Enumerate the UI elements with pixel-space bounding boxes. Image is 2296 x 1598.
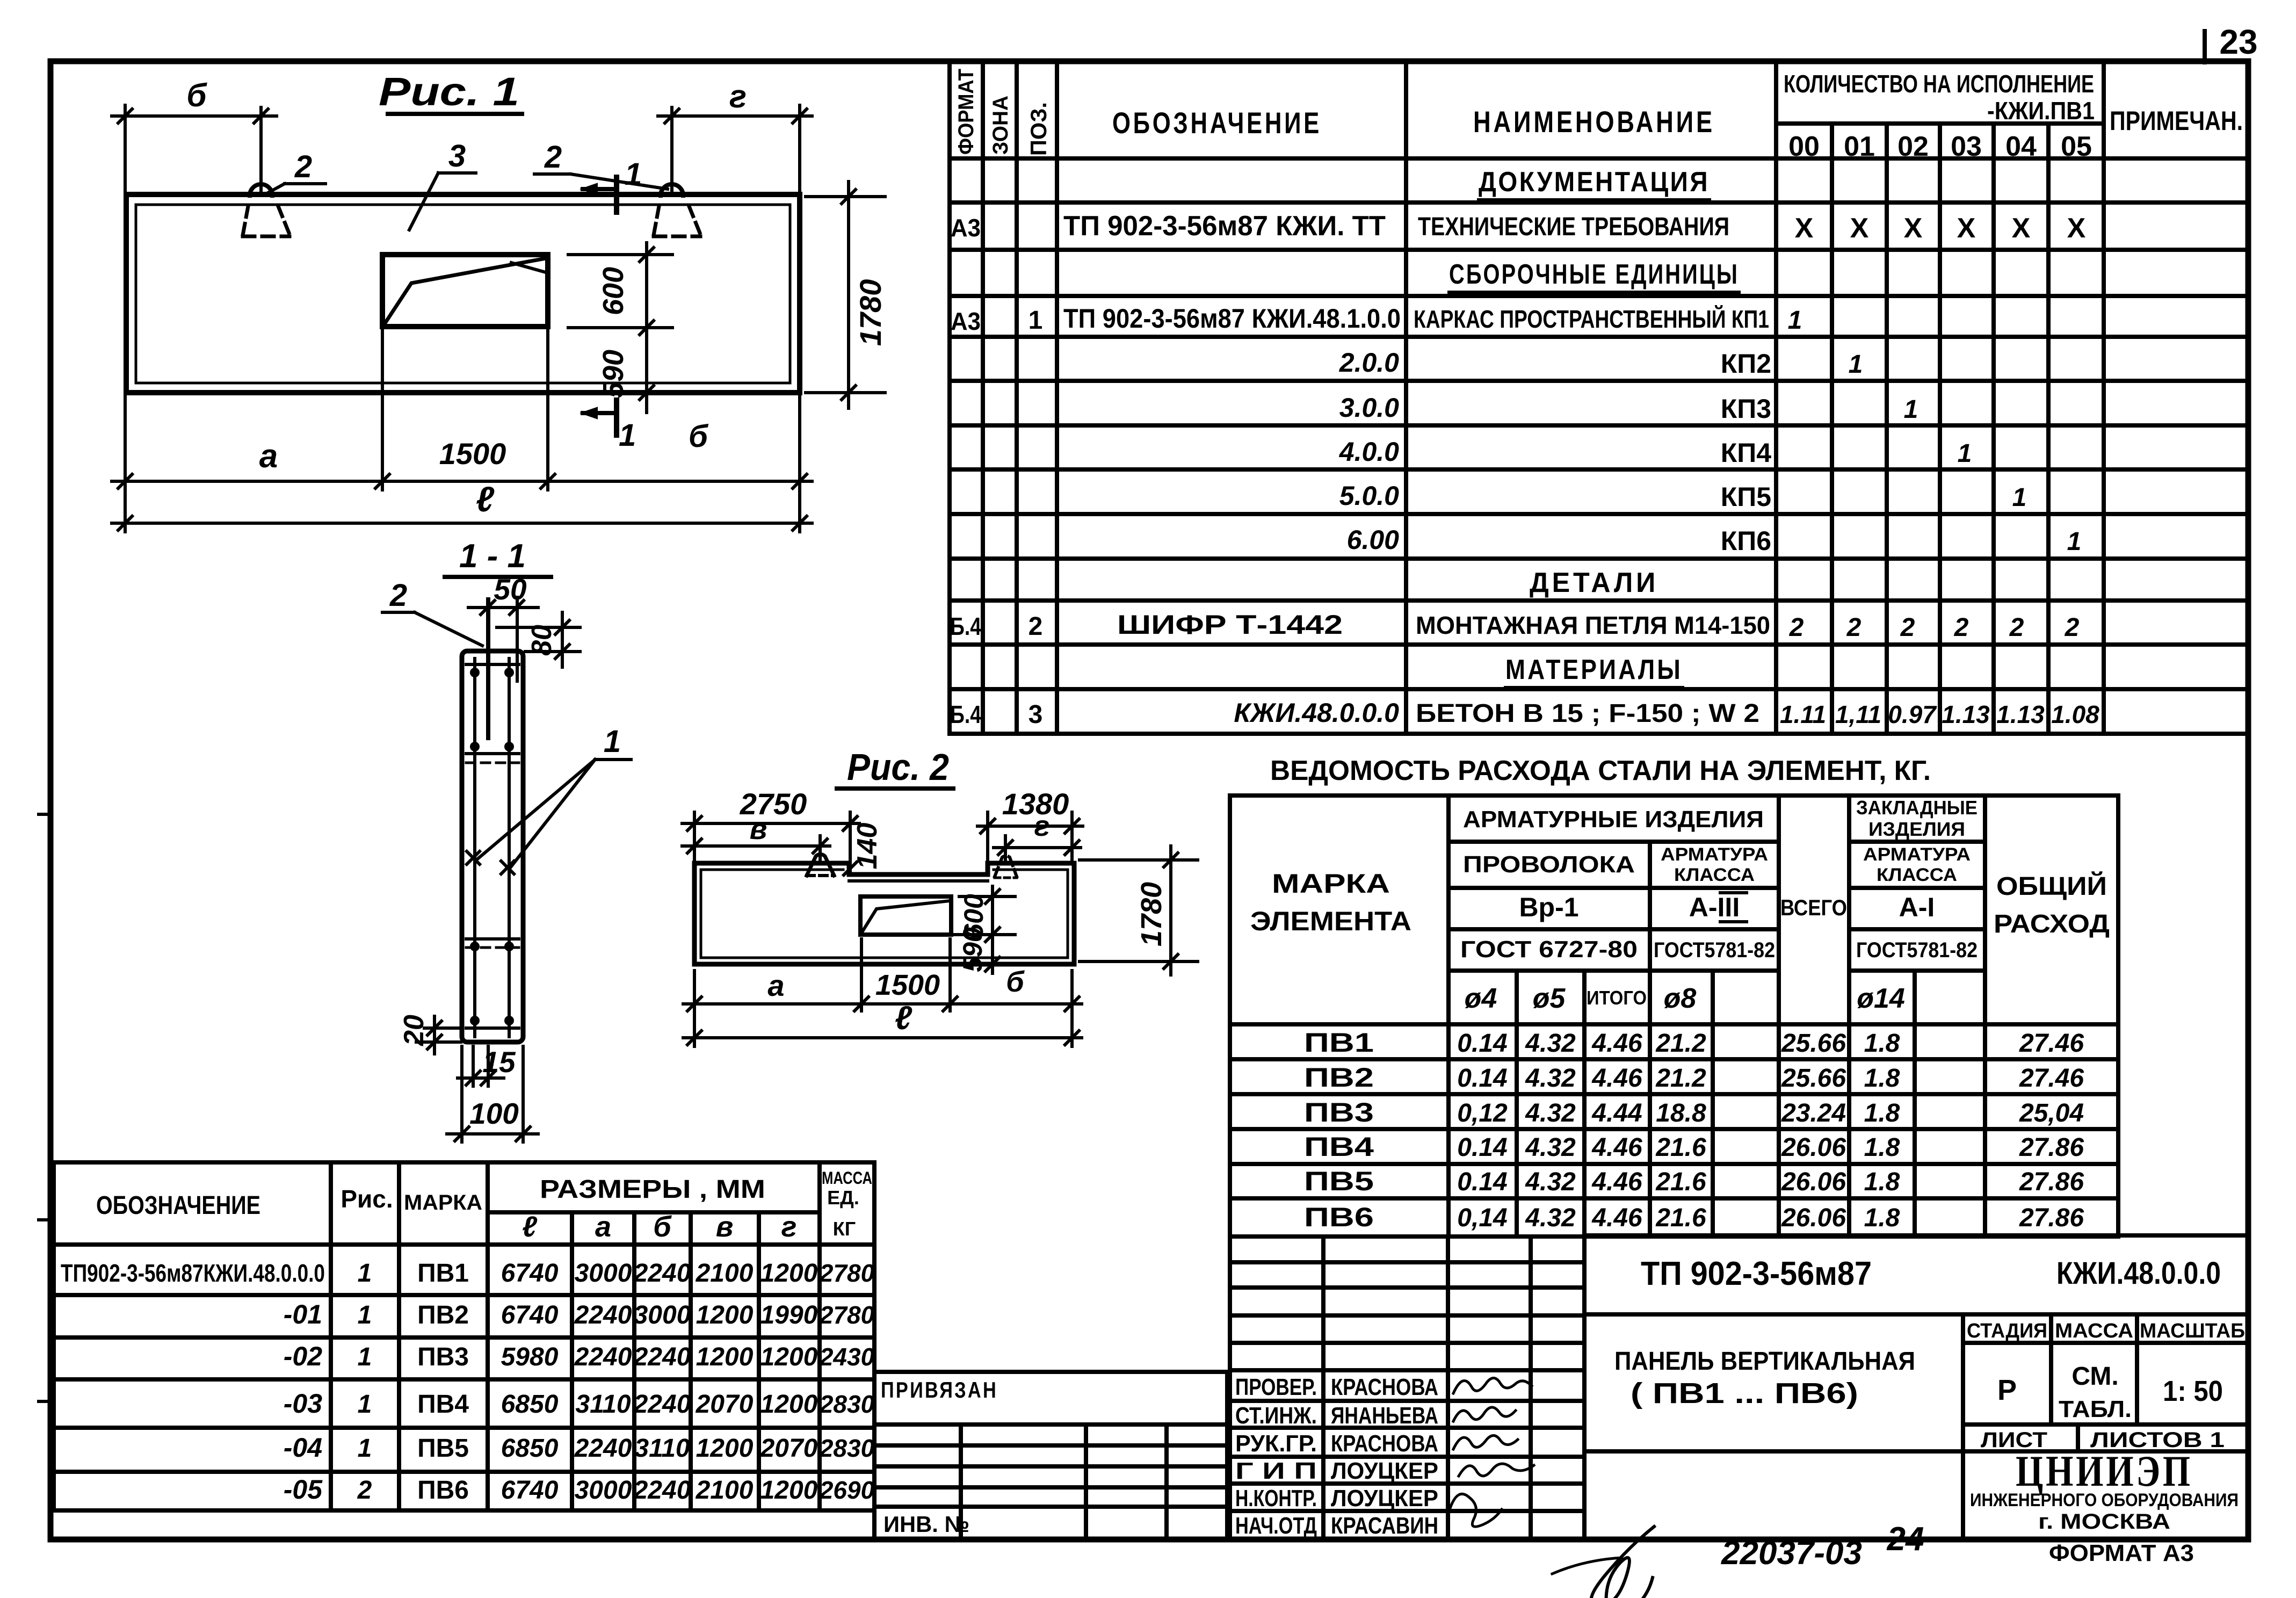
page number 23	[2203, 31, 2207, 62]
svg-text:2830: 2830	[819, 1390, 875, 1418]
svg-text:6850: 6850	[501, 1390, 559, 1419]
svg-text:1,11: 1,11	[1835, 700, 1881, 728]
fig1 extension lines	[124, 105, 127, 532]
svg-text:1: 1	[619, 418, 636, 453]
svg-text:ТП 902-3-56м87 КЖИ.48.1.0.0: ТП 902-3-56м87 КЖИ.48.1.0.0	[1063, 303, 1401, 334]
svg-text:-КЖИ.ПВ1: -КЖИ.ПВ1	[1987, 97, 2095, 125]
svg-text:0,14: 0,14	[1457, 1204, 1507, 1232]
svg-text:ПВ5: ПВ5	[1304, 1166, 1374, 1196]
svg-text:ПРИМЕЧАН.: ПРИМЕЧАН.	[2110, 106, 2243, 136]
svg-text:1: 1	[1788, 306, 1802, 335]
svg-text:ЗОНА: ЗОНА	[989, 96, 1012, 155]
svg-text:27.86: 27.86	[2019, 1204, 2084, 1232]
svg-text:1: 1	[2067, 527, 2082, 556]
svg-text:ПВ1: ПВ1	[1304, 1028, 1374, 1058]
svg-text:1: 1	[604, 724, 621, 759]
svg-text:80: 80	[526, 625, 557, 656]
svg-text:04: 04	[2005, 131, 2037, 162]
svg-text:1: 1	[1849, 350, 1863, 379]
svg-text:4.0.0: 4.0.0	[1339, 437, 1399, 467]
svg-text:4.32: 4.32	[1525, 1099, 1576, 1127]
section 1-1 extension right	[516, 597, 519, 681]
svg-text:1 - 1: 1 - 1	[459, 538, 526, 575]
svg-text:НАИМЕНОВАНИЕ: НАИМЕНОВАНИЕ	[1473, 105, 1715, 139]
svg-text:100: 100	[469, 1097, 519, 1130]
svg-text:2240: 2240	[633, 1343, 691, 1371]
svg-text:1.13: 1.13	[1996, 700, 2045, 728]
svg-text:1200: 1200	[696, 1343, 754, 1371]
svg-text:А3: А3	[951, 307, 981, 335]
svg-text:ПВ1: ПВ1	[417, 1259, 469, 1288]
svg-text:0.97: 0.97	[1888, 700, 1937, 728]
svg-text:ПВ6: ПВ6	[1304, 1202, 1374, 1232]
svg-text:26.06: 26.06	[1781, 1133, 1846, 1162]
svg-text:РАЗМЕРЫ , ММ: РАЗМЕРЫ , ММ	[540, 1175, 765, 1204]
svg-text:26.06: 26.06	[1781, 1168, 1846, 1196]
svg-text:КЛАССА: КЛАССА	[1877, 865, 1957, 885]
fig2 dim a 1500 b	[683, 1002, 1082, 1006]
svg-text:1.13: 1.13	[1942, 700, 1990, 728]
svg-text:ТЕХНИЧЕСКИЕ ТРЕБОВАНИЯ: ТЕХНИЧЕСКИЕ ТРЕБОВАНИЯ	[1418, 213, 1729, 241]
svg-text:0.14: 0.14	[1457, 1133, 1507, 1162]
svg-text:0.14: 0.14	[1457, 1029, 1507, 1058]
svg-text:МАРКА: МАРКА	[1272, 869, 1390, 899]
svg-text:ПРИВЯЗАН: ПРИВЯЗАН	[881, 1377, 998, 1402]
svg-text:ПВ2: ПВ2	[1304, 1062, 1374, 1093]
svg-text:X: X	[2067, 213, 2086, 244]
svg-text:ОБОЗНАЧЕНИЕ: ОБОЗНАЧЕНИЕ	[1112, 106, 1322, 140]
fig1 loop 1 arc	[250, 184, 272, 196]
svg-text:X: X	[1850, 213, 1869, 244]
svg-text:А3: А3	[951, 214, 981, 242]
svg-text:ПВ3: ПВ3	[417, 1343, 469, 1371]
svg-text:22037-03: 22037-03	[1721, 1535, 1862, 1572]
svg-text:Б.4: Б.4	[950, 700, 981, 728]
svg-text:ЛОУЦКЕР: ЛОУЦКЕР	[1331, 1485, 1438, 1512]
fig2 bottom extension lines	[693, 971, 696, 1046]
title block grid	[1584, 1233, 2248, 1238]
svg-text:21.6: 21.6	[1655, 1133, 1706, 1162]
svg-text:23.24: 23.24	[1781, 1099, 1846, 1127]
svg-text:2: 2	[1954, 613, 1969, 642]
svg-text:2830: 2830	[819, 1434, 875, 1462]
svg-text:а: а	[259, 438, 278, 475]
svg-text:6.00: 6.00	[1347, 525, 1400, 555]
svg-text:1: 1	[2012, 483, 2027, 512]
svg-text:1780: 1780	[1135, 882, 1168, 946]
svg-text:5.0.0: 5.0.0	[1339, 481, 1399, 511]
svg-text:6850: 6850	[501, 1434, 559, 1463]
svg-text:2240: 2240	[574, 1434, 632, 1463]
svg-text:ГОСТ5781-82: ГОСТ5781-82	[1654, 938, 1775, 962]
svg-text:ПАНЕЛЬ ВЕРТИКАЛЬНАЯ: ПАНЕЛЬ ВЕРТИКАЛЬНАЯ	[1614, 1347, 1915, 1376]
svg-text:КОЛИЧЕСТВО НА ИСПОЛНЕНИЕ: КОЛИЧЕСТВО НА ИСПОЛНЕНИЕ	[1784, 70, 2094, 98]
svg-text:ВЕДОМОСТЬ РАСХОДА СТАЛИ НА: ВЕДОМОСТЬ РАСХОДА СТАЛИ НА ЭЛЕМЕНТ, КГ.	[1270, 755, 1931, 786]
svg-text:б: б	[689, 419, 709, 454]
svg-text:ℓ: ℓ	[895, 1000, 912, 1037]
svg-text:1200: 1200	[696, 1434, 754, 1463]
svg-text:2100: 2100	[696, 1476, 754, 1505]
fig2 notch inner line	[849, 879, 988, 883]
svg-text:0.14: 0.14	[1457, 1064, 1507, 1093]
section 1-1 stirrups top	[466, 663, 519, 666]
svg-text:АРМАТУРА: АРМАТУРА	[1661, 844, 1768, 865]
section 1-1 dim 80	[497, 626, 580, 629]
svg-text:ОБОЗНАЧЕНИЕ: ОБОЗНАЧЕНИЕ	[96, 1191, 260, 1220]
svg-text:27.86: 27.86	[2019, 1168, 2084, 1196]
svg-text:б: б	[1006, 966, 1025, 998]
section 1-1 column outline	[462, 651, 523, 1042]
svg-text:ПВ3: ПВ3	[1304, 1097, 1374, 1127]
svg-text:( ПВ1 ... ПВ6): ( ПВ1 ... ПВ6)	[1631, 1377, 1858, 1409]
svg-text:ВСЕГО: ВСЕГО	[1780, 895, 1847, 920]
svg-text:2430: 2430	[819, 1343, 875, 1371]
svg-text:ℓ: ℓ	[522, 1211, 538, 1243]
svg-text:А-III: А-III	[1689, 892, 1740, 922]
svg-text:2: 2	[357, 1476, 372, 1505]
svg-text:03: 03	[1951, 131, 1982, 162]
svg-text:2100: 2100	[696, 1259, 754, 1288]
svg-text:ЯНАНЬЕВА: ЯНАНЬЕВА	[1331, 1402, 1438, 1429]
svg-text:1200: 1200	[760, 1343, 818, 1371]
fold mark left upper	[39, 813, 50, 816]
svg-text:1500: 1500	[439, 437, 506, 471]
signature table grid	[1228, 1237, 1232, 1539]
fig2 loop 2	[995, 856, 1017, 877]
svg-text:МАССА: МАССА	[822, 1168, 872, 1188]
svg-text:2240: 2240	[574, 1343, 632, 1371]
svg-text:3: 3	[1029, 700, 1043, 729]
fig1 loop 2 trapezoid	[654, 206, 659, 235]
fig2 extension lines	[693, 812, 696, 863]
svg-text:590: 590	[958, 927, 988, 972]
fig1 loop 2 arc	[661, 184, 683, 196]
fig2 dim l	[683, 1036, 1082, 1039]
svg-text:X: X	[1957, 213, 1976, 244]
svg-text:1: 1	[358, 1390, 372, 1419]
svg-text:ЕД.: ЕД.	[827, 1187, 859, 1209]
svg-text:2: 2	[2009, 613, 2024, 642]
svg-text:ЭЛЕМЕНТА: ЭЛЕМЕНТА	[1250, 906, 1411, 936]
fig2 panel inner line	[701, 869, 843, 871]
steel table grid	[1228, 796, 1232, 1237]
svg-text:2: 2	[1029, 612, 1043, 641]
svg-text:МАССА: МАССА	[2055, 1320, 2133, 1342]
svg-text:-05: -05	[284, 1474, 323, 1505]
fig1 panel outline	[126, 194, 800, 393]
svg-text:МАРКА: МАРКА	[404, 1191, 482, 1214]
svg-text:2: 2	[1900, 613, 1915, 642]
svg-text:27.46: 27.46	[2019, 1064, 2084, 1093]
svg-text:ПВ2: ПВ2	[417, 1301, 469, 1329]
fig2 dim 140	[844, 817, 857, 830]
svg-text:ИНВ. №: ИНВ. №	[883, 1512, 969, 1537]
svg-text:ФОРМАТ А3: ФОРМАТ А3	[2049, 1540, 2194, 1566]
svg-text:г. МОСКВА: г. МОСКВА	[2038, 1510, 2170, 1534]
svg-text:ПВ4: ПВ4	[1304, 1132, 1374, 1162]
svg-text:ø5: ø5	[1533, 983, 1566, 1014]
svg-text:СМ.: СМ.	[2072, 1362, 2118, 1391]
svg-text:1200: 1200	[760, 1390, 818, 1419]
svg-text:ЦНИИЭП: ЦНИИЭП	[2016, 1447, 2193, 1495]
svg-text:ø14: ø14	[1857, 983, 1905, 1014]
svg-text:ИЗДЕЛИЯ: ИЗДЕЛИЯ	[1868, 818, 1965, 840]
privyazan box	[874, 1372, 1227, 1425]
svg-text:ТАБЛ.: ТАБЛ.	[2059, 1396, 2132, 1422]
svg-text:1: 1	[358, 1343, 372, 1371]
svg-text:600: 600	[597, 267, 629, 315]
svg-text:2070: 2070	[696, 1390, 754, 1419]
svg-text:4.32: 4.32	[1525, 1064, 1576, 1093]
section 1-1 loop wire	[486, 599, 490, 738]
svg-text:140: 140	[852, 823, 883, 870]
svg-text:4.32: 4.32	[1525, 1168, 1576, 1196]
svg-text:г: г	[781, 1211, 797, 1243]
svg-text:3110: 3110	[575, 1390, 631, 1419]
svg-text:ФОРМАТ: ФОРМАТ	[954, 69, 978, 155]
svg-text:-01: -01	[284, 1299, 322, 1329]
svg-text:-04: -04	[284, 1433, 322, 1463]
section 1-1 dim 100	[460, 1046, 463, 1142]
svg-text:1: 1	[358, 1259, 372, 1288]
svg-text:02: 02	[1897, 131, 1929, 162]
svg-text:1.8: 1.8	[1864, 1099, 1900, 1127]
svg-text:6740: 6740	[501, 1259, 559, 1288]
svg-text:4.46: 4.46	[1591, 1204, 1642, 1232]
inv table grid	[872, 1425, 877, 1539]
svg-text:3.0.0: 3.0.0	[1339, 393, 1399, 423]
svg-text:ЗАКЛАДНЫЕ: ЗАКЛАДНЫЕ	[1856, 797, 1978, 819]
fig1 dim g top	[658, 114, 812, 118]
svg-text:ø8: ø8	[1664, 983, 1697, 1014]
svg-text:ДЕТАЛИ: ДЕТАЛИ	[1530, 567, 1658, 598]
svg-text:3000: 3000	[634, 1301, 691, 1329]
section 1-1 x marks	[467, 851, 480, 864]
svg-text:СБОРОЧНЫЕ ЕДИНИЦЫ: СБОРОЧНЫЕ ЕДИНИЦЫ	[1449, 259, 1739, 290]
svg-text:ТП 902-3-56м87: ТП 902-3-56м87	[1641, 1255, 1872, 1292]
svg-text:ДОКУМЕНТАЦИЯ: ДОКУМЕНТАЦИЯ	[1479, 167, 1710, 198]
fig2 dim 1780	[1080, 858, 1198, 862]
svg-text:6740: 6740	[501, 1476, 559, 1505]
svg-text:1: 1	[1029, 306, 1043, 335]
svg-text:6740: 6740	[501, 1301, 559, 1329]
svg-text:г: г	[1034, 810, 1050, 842]
fold mark left mid	[39, 1218, 50, 1221]
svg-text:КРАСНОВА: КРАСНОВА	[1331, 1430, 1438, 1457]
svg-text:РУК.ГР.: РУК.ГР.	[1235, 1430, 1317, 1457]
svg-text:3000: 3000	[575, 1476, 632, 1505]
svg-text:21.6: 21.6	[1655, 1168, 1706, 1196]
svg-text:-02: -02	[284, 1341, 322, 1371]
svg-text:27.86: 27.86	[2019, 1133, 2084, 1162]
svg-text:Рис. 1: Рис. 1	[379, 69, 519, 114]
svg-text:ЛОУЦКЕР: ЛОУЦКЕР	[1331, 1458, 1438, 1484]
fig1 loop 1 trapezoid	[243, 206, 248, 235]
svg-text:НАЧ.ОТД: НАЧ.ОТД	[1235, 1513, 1317, 1539]
section 1-1 rebar lines	[473, 659, 476, 1037]
fig2 panel outline	[694, 863, 1074, 964]
svg-text:А-I: А-I	[1899, 892, 1935, 922]
svg-text:4.46: 4.46	[1591, 1168, 1642, 1196]
svg-text:Г И П: Г И П	[1235, 1458, 1317, 1484]
svg-text:25,04: 25,04	[2019, 1099, 2084, 1127]
svg-text:КП2: КП2	[1721, 349, 1771, 379]
svg-text:1.8: 1.8	[1864, 1168, 1900, 1196]
svg-text:б: б	[186, 77, 207, 113]
svg-text:2: 2	[1846, 613, 1862, 642]
svg-text:05: 05	[2061, 131, 2092, 162]
svg-text:590: 590	[597, 350, 629, 398]
svg-text:26.06: 26.06	[1781, 1204, 1846, 1232]
svg-text:1.8: 1.8	[1864, 1204, 1900, 1232]
svg-text:4.32: 4.32	[1525, 1133, 1576, 1162]
svg-text:27.46: 27.46	[2019, 1029, 2084, 1058]
svg-text:1200: 1200	[696, 1301, 754, 1329]
svg-text:2: 2	[294, 149, 312, 184]
svg-text:2690: 2690	[819, 1476, 875, 1504]
bottom left table grid	[52, 1162, 56, 1510]
svg-text:15: 15	[482, 1045, 516, 1079]
section 1-1 dim 20	[424, 1026, 461, 1030]
fig2 dim 1380	[977, 825, 1083, 828]
svg-text:ПВ5: ПВ5	[417, 1434, 469, 1463]
svg-text:ПРОВОЛОКА: ПРОВОЛОКА	[1463, 851, 1635, 878]
svg-text:3: 3	[448, 139, 466, 173]
section 1-1 stirrups bottom	[466, 937, 519, 941]
fig1 panel inner line	[136, 205, 790, 383]
svg-text:в: в	[750, 813, 767, 845]
svg-text:ПВ4: ПВ4	[417, 1390, 469, 1419]
svg-text:КРАСНОВА: КРАСНОВА	[1331, 1374, 1438, 1400]
svg-text:ПОЗ.: ПОЗ.	[1026, 102, 1051, 156]
svg-text:2: 2	[2065, 613, 2080, 642]
svg-text:23: 23	[2219, 23, 2257, 61]
svg-text:20: 20	[399, 1015, 430, 1046]
fig1 dim 600 590	[568, 253, 672, 256]
svg-text:Р: Р	[1997, 1374, 2017, 1406]
svg-text:КЖИ.48.0.0.0: КЖИ.48.0.0.0	[1234, 698, 1399, 728]
svg-text:0,12: 0,12	[1457, 1099, 1508, 1127]
svg-text:4.32: 4.32	[1525, 1029, 1576, 1058]
svg-text:25.66: 25.66	[1781, 1029, 1846, 1058]
svg-text:ℓ: ℓ	[476, 479, 495, 519]
fig2 loop 1	[807, 854, 834, 876]
svg-text:КЛАССА: КЛАССА	[1674, 865, 1755, 885]
svg-text:БЕТОН В 15 ; F-150 ; W 2: БЕТОН В 15 ; F-150 ; W 2	[1416, 699, 1759, 728]
section 1-1 rebar dots	[470, 668, 480, 677]
svg-text:1500: 1500	[875, 969, 940, 1001]
svg-text:СТАДИЯ: СТАДИЯ	[1967, 1320, 2047, 1342]
svg-text:1.08: 1.08	[2051, 700, 2099, 728]
svg-text:РАСХОД: РАСХОД	[1994, 910, 2110, 938]
svg-text:Б.4: Б.4	[950, 612, 981, 640]
svg-text:18.8: 18.8	[1656, 1099, 1706, 1127]
svg-text:КП6: КП6	[1721, 526, 1771, 556]
fig2 opening crack	[861, 901, 950, 933]
svg-text:1: 50: 1: 50	[2163, 1375, 2223, 1407]
svg-text:а: а	[595, 1211, 611, 1243]
svg-text:ГОСТ 6727-80: ГОСТ 6727-80	[1460, 936, 1638, 963]
svg-text:ТП 902-3-56м87 КЖИ. ТТ: ТП 902-3-56м87 КЖИ. ТТ	[1063, 211, 1386, 242]
svg-text:2.0.0: 2.0.0	[1339, 348, 1399, 378]
svg-text:21.2: 21.2	[1655, 1064, 1706, 1093]
fig2 dim v	[682, 844, 830, 848]
svg-text:2: 2	[1789, 613, 1804, 642]
svg-text:КРАСАВИН: КРАСАВИН	[1331, 1513, 1438, 1539]
fold mark left lower	[39, 1400, 50, 1403]
svg-text:б: б	[653, 1211, 672, 1243]
fig1 dim a 1500 b bottom	[112, 480, 812, 483]
svg-text:КП5: КП5	[1721, 482, 1771, 512]
svg-text:2240: 2240	[633, 1476, 691, 1505]
svg-text:4.32: 4.32	[1525, 1204, 1576, 1232]
svg-text:1.8: 1.8	[1864, 1133, 1900, 1162]
signature squiggles	[1453, 1378, 1532, 1393]
svg-text:1.8: 1.8	[1864, 1029, 1900, 1058]
svg-text:ГОСТ5781-82: ГОСТ5781-82	[1856, 938, 1978, 962]
svg-text:1990: 1990	[760, 1301, 818, 1329]
svg-text:2780: 2780	[819, 1259, 875, 1287]
svg-text:ø4: ø4	[1465, 983, 1497, 1014]
fig2 dim 2750	[682, 822, 859, 825]
svg-text:в: в	[716, 1211, 734, 1243]
svg-text:1: 1	[1958, 439, 1972, 468]
svg-text:АРМАТУРА: АРМАТУРА	[1863, 844, 1971, 865]
svg-text:г: г	[729, 78, 747, 114]
svg-text:а: а	[767, 968, 784, 1002]
svg-text:4.46: 4.46	[1591, 1064, 1642, 1093]
svg-text:3110: 3110	[634, 1434, 690, 1463]
svg-text:Рис. 2: Рис. 2	[847, 746, 949, 788]
svg-text:24: 24	[1887, 1521, 1924, 1558]
fig1 opening	[382, 255, 548, 327]
svg-text:КП4: КП4	[1721, 438, 1771, 468]
svg-text:АРМАТУРНЫЕ ИЗДЕЛИЯ: АРМАТУРНЫЕ ИЗДЕЛИЯ	[1463, 806, 1764, 833]
svg-text:КАРКАС ПРОСТРАНСТВЕННЫЙ КП1: КАРКАС ПРОСТРАНСТВЕННЫЙ КП1	[1414, 305, 1769, 333]
svg-text:ШИФР Т-1442: ШИФР Т-1442	[1117, 610, 1343, 640]
svg-text:1: 1	[358, 1301, 372, 1329]
svg-text:ТП902-3-56м87КЖИ.48.0.0.0: ТП902-3-56м87КЖИ.48.0.0.0	[61, 1259, 325, 1287]
svg-text:00: 00	[1788, 131, 1820, 162]
svg-text:КЖИ.48.0.0.0: КЖИ.48.0.0.0	[2056, 1256, 2221, 1291]
svg-text:МАТЕРИАЛЫ: МАТЕРИАЛЫ	[1505, 654, 1683, 685]
svg-text:1: 1	[625, 157, 642, 192]
svg-text:1780: 1780	[853, 279, 887, 346]
svg-text:X: X	[1904, 213, 1923, 244]
svg-text:МАСШТАБ: МАСШТАБ	[2140, 1320, 2245, 1342]
svg-text:2240: 2240	[574, 1301, 632, 1329]
svg-text:X: X	[1795, 213, 1814, 244]
svg-text:4.44: 4.44	[1591, 1099, 1642, 1127]
svg-text:Н.КОНТР.: Н.КОНТР.	[1235, 1485, 1317, 1512]
svg-text:ПВ6: ПВ6	[417, 1476, 469, 1505]
fig1 dim 1780	[806, 195, 885, 198]
svg-text:ОБЩИЙ: ОБЩИЙ	[1996, 871, 2107, 901]
fig2 dim 600 590	[959, 895, 1015, 898]
svg-text:ПРОВЕР.: ПРОВЕР.	[1235, 1374, 1317, 1400]
svg-text:1200: 1200	[760, 1259, 818, 1288]
svg-text:Рис.: Рис.	[341, 1185, 393, 1213]
svg-text:ИНЖЕНЕРНОГО ОБОРУДОВАНИЯ: ИНЖЕНЕРНОГО ОБОРУДОВАНИЯ	[1970, 1490, 2239, 1510]
svg-text:ИТОГО: ИТОГО	[1587, 987, 1647, 1009]
fig1 dim b top	[112, 114, 277, 118]
section 1-1 dim 15	[472, 1046, 475, 1086]
fig1 section mark 1 top	[614, 177, 619, 212]
svg-text:2070: 2070	[760, 1434, 818, 1463]
svg-text:3000: 3000	[575, 1259, 632, 1288]
svg-text:МОНТАЖНАЯ ПЕТЛЯ М14-150: МОНТАЖНАЯ ПЕТЛЯ М14-150	[1416, 611, 1770, 639]
svg-text:2: 2	[544, 140, 562, 175]
